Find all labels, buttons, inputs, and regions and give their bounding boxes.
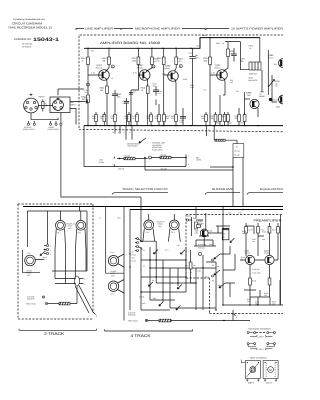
wire to volume pot [117,159,148,167]
resistor R201 [87,57,90,65]
capacitor C202 [112,90,118,103]
motor 230V box [241,360,260,385]
svg-text:7: 7 [113,157,114,160]
svg-text:22k: 22k [201,117,204,120]
svg-text:R105 1M: R105 1M [252,268,259,271]
svg-text:115 V: 115 V [259,348,265,351]
svg-text:2N1413: 2N1413 [164,67,170,70]
svg-text:5: 5 [96,315,98,318]
svg-text:CH 2: CH 2 [111,293,115,296]
svg-text:R327: R327 [228,122,232,125]
head wires down left [60,207,80,221]
svg-text:C3?: C3? [28,252,31,255]
resistor R333 horizontal [215,139,225,141]
svg-text:OC304: OC304 [198,222,203,225]
svg-text:+21V: +21V [90,50,95,53]
erase head 2tr [25,252,36,266]
cap C206 [153,86,159,105]
bus junction dots heads [79,206,81,208]
svg-text:LEVEL: LEVEL [196,159,202,162]
transistor Q202 [133,64,150,80]
emitter resistor R210 [146,86,149,94]
svg-text:L1: L1 [99,217,101,220]
stage 2 collector wire [146,48,152,71]
resistor R202 [87,95,90,103]
amplifier board dashed border [79,35,283,128]
svg-text:5.1V: 5.1V [133,72,138,75]
resistor R322 [209,57,212,65]
svg-text:FREE HEAD: FREE HEAD [128,319,138,322]
svg-text:TR 2: TR 2 [78,232,82,235]
svg-text:C110: C110 [209,243,213,246]
pin 5 mark [93,312,96,315]
svg-text:FREE HEAD: FREE HEAD [26,303,36,306]
preamp transistor Q101 [245,250,255,265]
resistor R216 [162,57,165,65]
svg-text:R134: R134 [249,229,253,232]
svg-text:R106: R106 [209,230,213,233]
svg-text:S2-3: S2-3 [165,249,168,252]
svg-text:50: 50 [276,85,278,88]
transistor Q306 [246,91,265,109]
svg-text:1k: 1k [141,89,143,92]
transformer 115V row [247,343,275,351]
lower switch row [141,309,170,311]
svg-text:2 TRACK: 2 TRACK [44,331,64,336]
preamp mid components [189,262,192,269]
svg-text:1n: 1n [241,258,243,261]
svg-text:S2-1: S2-1 [132,257,136,260]
svg-text:10u: 10u [247,300,250,303]
svg-text:R323: R323 [216,122,220,125]
2 track solid enclosure [27,211,87,271]
svg-text:29-1-60 dA: 29-1-60 dA [22,43,33,46]
potentiometer R330 [268,75,275,92]
shielded block [222,228,229,240]
motor 115V box [263,361,278,385]
svg-text:29-3-60 FL: 29-3-60 FL [22,46,33,49]
svg-text:6: 6 [208,129,209,132]
svg-text:15043-1: 15043-1 [33,37,59,43]
svg-text:19.5V: 19.5V [196,45,201,48]
svg-text:12: 12 [112,131,114,134]
svg-text:100: 100 [230,81,233,84]
svg-text:INPUT: INPUT [71,103,77,106]
svg-text:2: 2 [112,66,114,69]
svg-text:25V: 25V [195,56,199,59]
svg-text:R112: R112 [205,276,209,279]
4tr head box [106,272,124,274]
left long wire down [61,125,141,197]
svg-text:C201: C201 [84,97,88,100]
svg-text:1M: 1M [217,265,220,268]
svg-text:11: 11 [118,131,120,134]
stage 4 base wire [210,38,220,126]
svg-text:R105: R105 [195,230,199,233]
svg-text:C106 120k: C106 120k [252,271,260,274]
svg-text:3: 3 [153,66,155,69]
power section wire F301 [240,42,249,70]
svg-text:230 V: 230 V [248,381,255,384]
svg-text:S4: S4 [152,279,154,282]
diagonal wires to switch area [75,286,94,314]
svg-text:10k: 10k [153,85,156,88]
svg-text:R1: R1 [236,146,238,149]
svg-text:S4 B: S4 B [142,302,145,305]
transistor Q307 (edge) [269,95,288,108]
capacitor C17 [189,48,195,125]
resistor R207 [137,57,140,65]
switch contact column 4tr [135,238,143,252]
svg-text:1k: 1k [222,42,224,45]
svg-text:6-8u: 6-8u [117,217,120,220]
volume pot box [233,144,244,158]
svg-text:AMPLIFIER BOARD NO. 15008: AMPLIFIER BOARD NO. 15008 [100,41,160,45]
svg-text:R1 10k: R1 10k [161,153,167,156]
svg-text:REC: REC [153,297,157,300]
title block text [8,18,59,49]
svg-text:8: 8 [113,164,114,167]
switch arrows mesh [149,238,235,310]
preamp transistor Q102 [264,250,274,265]
svg-text:5: 5 [199,253,201,256]
svg-text:Q304: Q304 [215,64,221,67]
svg-text:PREAMPLIFIER: PREAMPLIFIER [254,219,283,223]
svg-text:100: 100 [235,117,238,120]
driver block box [249,62,261,70]
svg-text:2: 2 [84,278,85,281]
svg-text:1k: 1k [100,117,102,120]
preamp components right of T1 [194,213,230,246]
svg-text:MICROPHONE AMPLIFIER: MICROPHONE AMPLIFIER [135,28,180,31]
svg-text:GROUND: GROUND [128,314,136,317]
svg-text:LINE AMPLIFIER: LINE AMPLIFIER [85,28,113,31]
svg-text:TAPE RECORDER MODEL 15: TAPE RECORDER MODEL 15 [8,26,52,30]
resistor R1 input [42,100,44,112]
svg-text:22u: 22u [241,60,244,63]
svg-text:P5: P5 [212,280,214,283]
svg-text:1.7V: 1.7V [91,72,96,75]
svg-text:S3: S3 [143,265,145,268]
svg-text:10u: 10u [155,117,158,120]
head bus line 1 [23,206,283,208]
2 track bracket [19,329,97,331]
preamp bottom wires [223,207,283,306]
svg-text:6: 6 [202,129,203,132]
transistor Q304 [211,64,227,80]
board exit pin 6 [206,126,208,137]
svg-text:C109 220p: C109 220p [198,243,206,246]
preamp dashed border [186,215,283,314]
svg-text:R325: R325 [221,115,225,118]
svg-text:100k: 100k [92,117,96,120]
svg-text:Q202: Q202 [138,64,144,67]
svg-text:TuV: TuV [274,63,278,66]
svg-text:Q30: Q30 [276,106,280,109]
stage 2 emitter wire [146,79,149,126]
svg-text:5: 5 [236,316,238,319]
preamp lower components [249,278,252,285]
svg-text:4.40: 4.40 [228,212,231,215]
test point 5 circled [198,252,201,255]
transistor Q201 [91,64,109,80]
svg-text:1k: 1k [158,59,160,62]
svg-text:8: 8 [130,131,131,134]
node circle 1 [149,156,152,159]
erase head switch [35,251,45,260]
svg-text:47k: 47k [177,244,180,247]
svg-text:680: 680 [166,117,169,120]
svg-text:C317: C317 [240,122,244,125]
input DIN connector J1 [24,94,39,113]
svg-text:230 V: 230 V [259,335,265,338]
test point 2 circle [111,65,114,68]
svg-text:22k: 22k [147,117,150,120]
svg-text:R2 10k: R2 10k [125,154,131,157]
coupling cap C201 [86,100,88,104]
svg-text:S1-1: S1-1 [43,258,47,261]
svg-text:C105: C105 [187,215,191,218]
svg-text:Motor connections: Motor connections [250,356,267,359]
svg-text:2N1413: 2N1413 [214,67,220,70]
svg-text:LEVEL: LEVEL [99,161,105,164]
svg-text:AND RADIO: AND RADIO [128,145,139,148]
svg-text:7.1V: 7.1V [211,72,216,75]
svg-text:115 V: 115 V [266,381,272,384]
svg-text:9: 9 [124,131,125,134]
stage 2 divider wire [130,75,132,126]
stage 4 emitter wire [223,79,225,95]
rec/play head T1 [55,220,66,283]
svg-text:220k: 220k [132,59,136,62]
2 track dashed enclosure [18,204,93,319]
switch arrows preamp [214,254,225,288]
emitter resistor R204 [106,86,109,94]
amplifier board dashed bottom edge [79,129,283,132]
svg-text:M: M [269,368,272,372]
stage 1 emitter wire [105,79,108,126]
svg-text:4: 4 [180,65,182,68]
terminals 7 8 [114,157,116,167]
svg-text:1k: 1k [133,117,135,120]
svg-text:10k 1W: 10k 1W [118,168,124,171]
svg-text:21.5V: 21.5V [202,34,207,37]
svg-text:Q305: Q305 [268,54,274,57]
svg-text:AL102: AL102 [268,57,273,60]
svg-text:7: 7 [188,155,189,158]
svg-text:22k: 22k [193,264,196,267]
svg-text:56k: 56k [242,232,245,235]
svg-text:R117: R117 [272,229,276,232]
top supply bus [84,38,260,49]
svg-text:2N1413: 2N1413 [137,67,143,70]
svg-text:B: B [172,282,173,285]
svg-text:R3 1k: R3 1k [132,254,137,257]
svg-text:4.5V: 4.5V [203,89,207,92]
svg-text:T303: T303 [247,94,251,97]
head wires down 4tr [149,214,175,220]
svg-text:BALANCE: BALANCE [249,79,259,82]
svg-text:1: 1 [84,283,85,286]
svg-text:8: 8 [188,163,189,166]
oval connector [55,276,85,286]
svg-text:R4 4k: R4 4k [132,260,137,263]
svg-text:220k: 220k [204,59,208,62]
svg-text:3: 3 [50,253,51,256]
svg-text:10u: 10u [255,303,258,306]
transformer 230V row [247,332,275,339]
mesh junction dots [149,259,150,260]
svg-text:OC304: OC304 [245,252,250,255]
ch2 head [108,280,124,296]
bus junction dots [87,37,259,126]
bottom wire row [145,319,147,321]
stage 3 base wire [164,48,171,125]
stage 4 collector wire [224,42,229,72]
svg-text:2N1413: 2N1413 [272,99,279,102]
svg-text:S1: S1 [143,249,145,252]
svg-text:10k: 10k [211,117,214,120]
resistor R209 [151,57,154,65]
preamp input components [186,207,203,237]
svg-text:Q201: Q201 [97,64,103,67]
svg-text:TR 1: TR 1 [57,232,61,235]
svg-text:R329 4k7: R329 4k7 [249,73,257,76]
svg-text:10u: 10u [158,92,161,95]
svg-text:10 WATTS POWER AMPLIFIER: 10 WATTS POWER AMPLIFIER [231,28,283,31]
svg-text:22k: 22k [264,294,267,297]
board exit pins left [115,126,132,140]
svg-text:47k: 47k [272,303,275,306]
transistor Q305 (edge) [268,50,287,95]
svg-text:DRAWING NO.: DRAWING NO. [14,38,32,41]
svg-text:100u: 100u [117,95,121,98]
capacitor C204 [129,93,133,95]
svg-text:INPUT: INPUT [39,96,46,99]
pin 5 mark preamp [233,313,236,316]
svg-text:TRACK SELECTOR CIRCUIT: TRACK SELECTOR CIRCUIT [122,188,168,191]
erase head box [22,250,40,272]
svg-text:1k: 1k [82,59,84,62]
svg-text:2: 2 [50,249,51,252]
capacitor C316 [231,48,237,62]
svg-text:(LOW LEVEL): (LOW LEVEL) [48,128,60,131]
contact feed wire [47,211,49,244]
wire lower horizontal [145,158,233,207]
ground terminals [42,296,44,298]
input connector J2 box [50,97,70,113]
section header 10 WATTS POWER AMPLIFIER [206,28,283,31]
svg-text:10u: 10u [85,91,88,94]
svg-text:4k7: 4k7 [179,60,182,63]
svg-text:C111: C111 [198,270,202,273]
svg-text:120p: 120p [180,121,184,124]
svg-text:Transformer connections: Transformer connections [248,328,271,331]
transistor Q200 [162,65,179,82]
svg-text:R1-100: R1-100 [234,154,240,157]
rec/play head T3 [143,220,155,242]
svg-text:C31: C31 [236,90,239,93]
stage 1 collector wire [106,48,110,71]
svg-text:4u7: 4u7 [133,91,136,94]
svg-text:R6: R6 [223,233,225,236]
hanging resistor row [92,95,246,126]
preamp right wires [240,215,281,305]
resistor bottom [159,319,171,322]
resistor free head [48,303,59,305]
svg-text:120k: 120k [190,86,194,89]
test point 3 circle [152,65,155,68]
section header MICROPHONE AMPLIFIER [121,28,205,31]
svg-text:10u: 10u [252,240,255,243]
stage 2 base wire [131,48,143,90]
mid cap C205 [124,98,129,126]
svg-text:R326: R326 [216,42,220,45]
stage 1 base wire [88,48,102,125]
svg-text:32u: 32u [111,117,114,120]
svg-text:100 log: 100 log [234,150,240,153]
svg-text:OHMS: OHMS [259,95,265,98]
test point 1 [87,83,90,86]
resistor R324 [227,49,230,57]
svg-text:REC B: REC B [139,296,144,299]
input terminal circles [27,123,29,125]
switch mesh wires [141,241,216,310]
rec/play head T4 [168,220,180,242]
scattered value labels board [85,34,240,105]
svg-text:220k: 220k [218,284,222,287]
svg-text:R11: R11 [185,264,188,267]
wires right power block [245,48,277,126]
svg-text:C17: C17 [189,52,192,55]
wires input to board [28,89,85,125]
stage 3 collector wire [175,48,177,71]
head bus line 2 [130,209,283,211]
svg-text:(HIGH LEVEL): (HIGH LEVEL) [23,128,35,131]
ch1 head [108,251,124,267]
svg-text:GROUND: GROUND [27,298,35,301]
section header LINE AMPLIFIER [76,28,121,31]
wire node to R1 pot [141,155,186,167]
svg-text:P6: P6 [212,264,214,267]
test point 4 circle [179,65,182,68]
4 track head group verticals [106,197,141,321]
svg-text:BUFFER AMP: BUFFER AMP [212,188,233,191]
svg-text:R105 1M: R105 1M [262,231,269,234]
svg-text:CH 1: CH 1 [111,251,115,254]
svg-text:TR 3: TR 3 [171,231,175,234]
wire x233 upper [210,126,243,207]
svg-text:470: 470 [171,117,174,120]
svg-text:TR 1: TR 1 [146,231,150,234]
svg-text:22k: 22k [103,59,106,62]
svg-text:220k: 220k [125,117,129,120]
svg-text:R10: R10 [193,217,196,220]
svg-text:2N1413: 2N1413 [96,67,102,70]
svg-text:4.35: 4.35 [238,212,241,215]
resistor R218 [175,57,178,65]
resistor R2 [124,157,135,160]
connector column left [44,244,51,256]
svg-text:C2: C2 [132,251,134,254]
svg-text:4k: 4k [223,236,225,239]
resistor R203 [108,57,111,65]
svg-text:PLATE ONLY: PLATE ONLY [152,148,164,151]
line level box [84,126,117,167]
svg-text:C209: C209 [183,78,187,81]
svg-text:1: 1 [50,245,51,248]
bottom supply bus [84,125,283,127]
